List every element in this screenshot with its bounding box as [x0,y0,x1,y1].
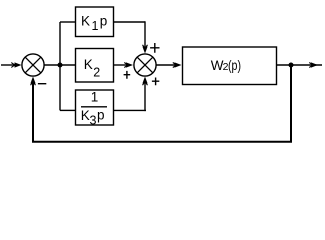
svg-text:K: K [84,57,93,72]
svg-text:p: p [97,108,105,123]
svg-text:K: K [81,108,90,123]
svg-text:(p): (p) [228,58,241,73]
svg-text:2: 2 [93,66,100,80]
svg-text:3: 3 [90,114,97,128]
svg-text:p: p [100,13,108,28]
svg-text:1: 1 [92,19,99,33]
svg-text:1: 1 [91,90,99,105]
svg-text:K: K [81,13,90,28]
